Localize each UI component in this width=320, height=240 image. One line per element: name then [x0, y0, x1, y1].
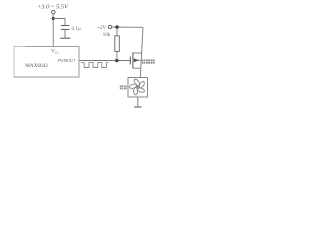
capacitor C1 plates [61, 25, 70, 27]
transistor Q1 top lead [133, 52, 142, 54]
svg-text:+5V: +5V [96, 25, 106, 31]
supply terminal (+5V) [108, 25, 111, 28]
PWM waveform symbol [81, 63, 108, 68]
label fan (风扇) [120, 85, 127, 89]
svg-text:10k: 10k [103, 32, 111, 38]
transistor Q1 body lead with arrow [134, 59, 142, 61]
svg-text:MAX6643: MAX6643 [25, 63, 48, 69]
svg-text:PWMOUT: PWMOUT [58, 58, 76, 63]
transistor Q1 channel bar [132, 52, 134, 68]
wire VCC vertical [52, 14, 54, 47]
transistor Q1 bottom lead [133, 67, 141, 69]
wire drain/source vertical [140, 27, 143, 77]
wire fan to ground [137, 97, 139, 107]
ground (C1) [60, 37, 71, 39]
fan M1 box [128, 78, 148, 98]
resistor R1 body [115, 36, 120, 52]
wire +5V rail [112, 26, 143, 28]
label P-channel (P沟道) [142, 59, 155, 63]
wire PWMOUT to gate [79, 60, 130, 62]
supply terminal (left) [52, 10, 56, 14]
svg-text:VCC: VCC [51, 49, 59, 55]
svg-text:0.1μ: 0.1μ [72, 26, 81, 32]
node junction +5V/R1 [115, 25, 119, 29]
node junction R1/gate wire [115, 59, 119, 63]
IC U1 MAX6643 box [14, 47, 79, 77]
svg-text:+3.0 ~ 5.5V: +3.0 ~ 5.5V [37, 3, 69, 10]
wire to C1 [53, 19, 65, 26]
transistor Q1 gate bar [129, 56, 131, 64]
ground (fan) [134, 106, 142, 108]
wire C1 lower lead [64, 30, 66, 38]
resistor R1 leads [116, 29, 118, 36]
fan impeller [129, 79, 145, 95]
node junction VCC/C1 [52, 17, 55, 20]
